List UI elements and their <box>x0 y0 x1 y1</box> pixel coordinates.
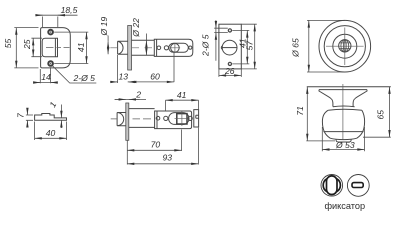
latch body block <box>154 39 193 56</box>
dim 14 extension lines <box>40 67 50 83</box>
svg-text:60: 60 <box>150 71 160 81</box>
dim 60 line <box>129 81 174 83</box>
dim 25 line <box>32 38 34 57</box>
faceplate bar (side view) <box>126 103 129 140</box>
dim 18,5 line <box>37 14 78 16</box>
strike hole top <box>228 28 232 32</box>
svg-text:2: 2 <box>135 89 141 99</box>
dim 26 line <box>219 74 241 76</box>
hub slot <box>196 115 199 118</box>
dim 2-O5 arrow line <box>215 20 217 61</box>
dim 7 extensions <box>26 115 33 120</box>
svg-text:65: 65 <box>376 110 386 120</box>
dim 41 side line <box>166 99 199 101</box>
dim 40 line <box>35 137 67 139</box>
hub piece <box>194 110 199 127</box>
dim 93 line <box>127 163 198 165</box>
svg-text:26: 26 <box>224 66 235 76</box>
svg-text:41: 41 <box>177 90 187 100</box>
knob collar seam <box>328 108 362 111</box>
svg-text:13: 13 <box>119 72 129 82</box>
body hole 2 side <box>164 116 168 120</box>
bolt nose side <box>117 113 126 126</box>
faceplate bar (top view) <box>128 26 132 71</box>
knob ball left side <box>322 110 364 139</box>
svg-text:55: 55 <box>3 39 13 49</box>
svg-text:14: 14 <box>41 72 51 82</box>
svg-text:93: 93 <box>163 152 173 162</box>
screw hole bottom <box>47 60 54 67</box>
profile outline <box>35 114 67 121</box>
spindle hole <box>171 44 180 53</box>
svg-text:70: 70 <box>151 140 161 150</box>
cam slot stadium <box>169 43 189 52</box>
turn button stadium <box>327 176 338 195</box>
knob circle 3 <box>333 34 357 58</box>
strike latch circle <box>222 40 237 55</box>
strike hole bottom <box>228 62 232 66</box>
dim 65 line <box>389 87 391 138</box>
body hole 2 <box>164 46 168 50</box>
turn button lens left arc <box>323 179 327 192</box>
dim D53 line <box>322 149 364 151</box>
spindle cross ticks side <box>175 112 190 127</box>
svg-text:Ø 19: Ø 19 <box>99 17 109 37</box>
dim 57 line <box>254 24 256 69</box>
svg-text:41: 41 <box>76 42 86 52</box>
knob bottom cap <box>336 140 351 143</box>
dim 71 line <box>306 87 308 141</box>
extension square down <box>181 130 183 152</box>
rose left profile <box>319 90 333 107</box>
centerline dashes latch top <box>110 47 152 49</box>
bolt face line in cutout <box>54 38 56 57</box>
dim 40 extensions <box>35 122 67 141</box>
body block side view <box>155 111 192 129</box>
knob centre lines <box>326 28 364 66</box>
latch body inner edge <box>156 39 158 56</box>
rose top <box>319 89 367 91</box>
svg-text:фиксатор: фиксатор <box>324 201 365 211</box>
extension faceplate down <box>126 140 128 164</box>
rose right profile <box>353 90 367 107</box>
dim 18,5 extension lines <box>43 17 58 28</box>
dim D65 extensions <box>307 20 345 72</box>
extension from spindle to dim 60 <box>173 52 175 82</box>
dim 1 arrows <box>60 105 62 118</box>
dim 41 side extensions <box>166 100 199 111</box>
knob centreline <box>342 84 344 140</box>
dim D53 extensions <box>322 127 364 151</box>
latch bolt nose <box>118 41 128 54</box>
turn button lens right arc <box>337 179 341 192</box>
dim 13 arrows <box>110 81 118 83</box>
centerline dashes faceplate <box>46 46 70 48</box>
dim 55 line <box>15 28 17 68</box>
body hole 1 side <box>156 116 160 120</box>
dim 26 extensions <box>219 69 241 77</box>
spindle centre ticks <box>170 43 180 53</box>
screw hole top <box>47 29 54 36</box>
svg-text:2-Ø 5: 2-Ø 5 <box>72 73 95 83</box>
faceplate outline <box>41 28 71 68</box>
dim 2-O5 extension lines <box>214 28 228 32</box>
leader 2-O5 faceplate holes <box>53 66 97 83</box>
body hole 3 <box>189 46 192 49</box>
latch cylinder <box>132 40 155 55</box>
dim 25 extension lines <box>31 38 42 57</box>
emergency slot <box>352 183 363 188</box>
dim D65 line <box>308 20 310 72</box>
dim 41 extension lines (hole centres) <box>54 32 88 63</box>
dim 55 extension lines <box>14 28 38 68</box>
svg-text:2-Ø 5: 2-Ø 5 <box>200 34 210 57</box>
svg-text:25: 25 <box>22 39 32 50</box>
dim 2 line <box>115 98 147 100</box>
emergency slot icon circle <box>347 175 369 197</box>
dim 70 line <box>127 149 181 151</box>
svg-text:Ø 53: Ø 53 <box>335 140 355 150</box>
dim 71 bottom extension <box>306 140 335 142</box>
spindle globe <box>339 40 351 52</box>
body inner edge side <box>156 111 158 129</box>
svg-text:57: 57 <box>245 40 255 51</box>
dim 41 strike extensions <box>232 30 249 64</box>
knob collar top <box>333 105 355 108</box>
strike latch chord <box>222 47 237 49</box>
mounting surface line <box>307 86 391 88</box>
svg-text:71: 71 <box>295 106 305 116</box>
extension hub down <box>197 128 199 165</box>
cam stadium side <box>169 113 189 125</box>
dim 14 line <box>34 82 58 84</box>
strike plate rect <box>219 24 241 69</box>
dim 41 line <box>86 32 88 63</box>
knob seam <box>323 131 363 133</box>
knob circle 2 <box>324 26 365 67</box>
dim 65 bottom extension <box>363 136 391 138</box>
dim 41 strike line <box>246 30 248 64</box>
dim D19 line <box>107 36 109 42</box>
square spindle <box>177 114 187 124</box>
svg-text:40: 40 <box>46 128 56 138</box>
body hole 1 <box>157 46 161 50</box>
dim 7 arrows <box>26 108 28 115</box>
strike latch bump <box>221 46 222 50</box>
faceplate cutout <box>42 38 57 57</box>
svg-text:Ø 22: Ø 22 <box>131 18 141 38</box>
dim 57 extensions <box>241 24 256 69</box>
svg-text:18,5: 18,5 <box>61 5 78 15</box>
turn button icon circle <box>321 175 343 197</box>
dim D22 line <box>145 34 147 41</box>
svg-text:Ø 65: Ø 65 <box>291 38 301 58</box>
centreline dashes side view <box>111 118 151 120</box>
cylinder side view <box>129 109 155 128</box>
knob outer circle <box>319 20 371 72</box>
extension from bolt nose <box>117 55 119 83</box>
body hole 3 side <box>188 116 192 120</box>
